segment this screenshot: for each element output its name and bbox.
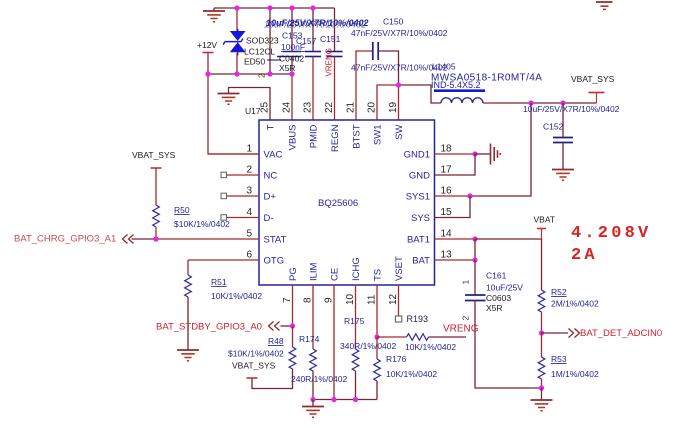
- wire bus drop to C157 (col 313): [312, 8, 314, 52]
- capacitor C152: [562, 103, 564, 137]
- pin 12 VSET stub + R193: [398, 285, 400, 316]
- wire diode bottom lead: [236, 53, 238, 74]
- IC U17 BQ25606 body: [259, 120, 435, 285]
- wire OTG down to R51: [187, 260, 189, 275]
- svg-text:2A: 2A: [571, 246, 598, 265]
- node dot GND1: [472, 151, 477, 156]
- node dot BAT1: [472, 236, 477, 241]
- svg-text:1M/1%/0402: 1M/1%/0402: [551, 369, 599, 379]
- svg-text:+12V: +12V: [197, 40, 217, 50]
- svg-text:15: 15: [441, 207, 453, 218]
- wire to rotated ground: [475, 153, 491, 155]
- svg-text:$10K/1%/0402: $10K/1%/0402: [228, 349, 284, 359]
- svg-text:ICHG: ICHG: [351, 257, 362, 281]
- svg-text:R48: R48: [268, 336, 284, 346]
- svg-text:SYS1: SYS1: [406, 192, 430, 203]
- svg-text:10K/1%/0402: 10K/1%/0402: [211, 291, 262, 301]
- svg-text:23: 23: [303, 101, 314, 113]
- svg-text:C0603: C0603: [486, 293, 511, 303]
- wire bus corner to C151 (col 334.5): [334, 8, 336, 52]
- node dots SW net: [528, 100, 533, 105]
- pin 9 CE column: [333, 285, 335, 400]
- svg-text:VBAT_SYS: VBAT_SYS: [571, 74, 615, 84]
- resistor 10K horizontal (VRENG): [407, 334, 429, 341]
- wire pin25 T to ground L: [229, 88, 271, 121]
- svg-text:TS: TS: [373, 269, 384, 281]
- wire pin19 SW up: [398, 85, 400, 120]
- svg-text:18: 18: [441, 144, 453, 155]
- pin numbers top (rotated): [260, 101, 400, 113]
- svg-text:NC: NC: [264, 171, 278, 182]
- svg-text:C0402: C0402: [279, 54, 304, 64]
- svg-text:1: 1: [461, 280, 471, 285]
- svg-text:D+: D+: [264, 192, 277, 203]
- svg-text:10K/1%/0402: 10K/1%/0402: [405, 342, 456, 352]
- VBAT_SYS power symbol (R48 bottom): [247, 377, 258, 379]
- pin numbers left: [246, 144, 252, 261]
- svg-text:R175: R175: [344, 316, 365, 326]
- pin 5 STAT stub: [156, 238, 259, 240]
- resistor R175: [352, 349, 359, 371]
- IND underline (thick blue): [434, 89, 485, 92]
- svg-text:VBAT_SYS: VBAT_SYS: [132, 150, 176, 160]
- ground (top-left, on bus): [213, 8, 215, 11]
- pin 4 D- stub: [227, 217, 260, 219]
- wire BAT net to VBAT: [475, 238, 542, 240]
- wire +12V down to pin1 VAC: [208, 74, 259, 154]
- pin names right: [404, 150, 431, 267]
- pin numbers right: [441, 144, 453, 261]
- pin names left: [264, 150, 287, 267]
- svg-text:8: 8: [303, 297, 314, 303]
- svg-text:10: 10: [345, 293, 356, 305]
- pin names top (rotated): [266, 124, 406, 152]
- svg-text:100nF: 100nF: [281, 42, 305, 52]
- wire SYS1 to pin 15 SYS: [435, 196, 471, 218]
- capacitor C153: [277, 52, 301, 57]
- wire bus drop to C153 (col 292): [291, 8, 293, 52]
- svg-text:R50: R50: [174, 205, 190, 215]
- svg-text:2: 2: [246, 165, 252, 176]
- pin 14 BAT1 stub: [435, 238, 476, 240]
- svg-text:12: 12: [388, 293, 399, 305]
- svg-text:3: 3: [246, 186, 252, 197]
- svg-text:GND1: GND1: [404, 150, 430, 161]
- svg-text:340R/1%/0402: 340R/1%/0402: [340, 341, 397, 351]
- pin 8 ILIM column: [312, 285, 314, 349]
- svg-text:BAT_DET_ADCIN0: BAT_DET_ADCIN0: [580, 328, 662, 339]
- ground (pin25 thermal): [218, 94, 240, 105]
- top ground bus wire (net VBUS top): [214, 7, 335, 9]
- pin 16 SYS1 stub: [435, 195, 471, 197]
- ground (bottom bus): [312, 400, 314, 407]
- svg-text:STAT: STAT: [264, 235, 287, 246]
- pin 13 BAT stub: [435, 259, 476, 261]
- wire diode top lead: [236, 8, 238, 32]
- svg-text:22: 22: [324, 101, 335, 113]
- ground (pin18, rotated): [491, 144, 501, 165]
- capacitor C151: [327, 52, 343, 57]
- svg-text:11: 11: [367, 294, 378, 305]
- ground (R51): [177, 350, 199, 361]
- node dot TS: [374, 334, 379, 339]
- TVS diode D (bidirectional, SOD-323): [223, 29, 245, 56]
- node dot ground net: [539, 385, 544, 390]
- svg-text:GND: GND: [409, 171, 430, 182]
- svg-text:VSET: VSET: [394, 256, 405, 281]
- svg-text:ED50: ED50: [244, 57, 266, 67]
- svg-text:BQ25606: BQ25606: [318, 198, 358, 209]
- svg-text:CE: CE: [330, 268, 341, 281]
- svg-text:16: 16: [441, 186, 453, 197]
- ground (battery divider): [541, 388, 543, 400]
- wire C150 right to SW node: [378, 51, 398, 85]
- svg-text:10uF/25V/X7R/10%/0402: 10uF/25V/X7R/10%/0402: [523, 104, 620, 114]
- svg-text:2: 2: [461, 316, 471, 321]
- svg-text:240R/1%/0402: 240R/1%/0402: [291, 374, 348, 384]
- inductor L1405: [441, 98, 483, 103]
- resistor R52: [538, 290, 545, 312]
- svg-text:VBUS: VBUS: [288, 125, 299, 151]
- svg-text:BAT1: BAT1: [407, 235, 430, 246]
- wire C153 bottom to pin24: [291, 57, 293, 75]
- svg-text:4.208V: 4.208V: [571, 224, 651, 243]
- svg-text:SW1: SW1: [373, 125, 384, 146]
- wire VBAT_SYS down to SYS pins: [470, 103, 531, 196]
- svg-text:C152: C152: [543, 122, 564, 132]
- pin numbers bottom (rotated): [282, 293, 399, 305]
- svg-text:10uF/25V: 10uF/25V: [486, 283, 523, 293]
- VBAT power symbol: [541, 229, 543, 240]
- svg-text:9: 9: [324, 297, 335, 303]
- svg-text:17: 17: [441, 165, 453, 176]
- stray leader line near ED50: [267, 59, 281, 61]
- svg-text:L1405: L1405: [432, 62, 456, 72]
- resistor R174: [310, 349, 317, 371]
- svg-text:24: 24: [282, 101, 293, 113]
- resistor R48: [292, 326, 294, 347]
- svg-text:47nF/25V/X7R/10%/0402: 47nF/25V/X7R/10%/0402: [351, 28, 448, 38]
- svg-text:OTG: OTG: [264, 256, 285, 267]
- resistor R51: [185, 275, 192, 297]
- svg-text:VBAT: VBAT: [534, 215, 556, 225]
- node dot SYS1: [467, 193, 472, 198]
- svg-text:SW: SW: [394, 124, 405, 139]
- svg-text:C161: C161: [486, 271, 507, 281]
- wire BAT1 to pin 13 BAT: [474, 239, 476, 260]
- wire R51 to ground: [187, 297, 189, 350]
- svg-text:5: 5: [246, 229, 252, 240]
- wire STDBY to pin7 column: [281, 325, 293, 327]
- svg-text:BAT_STDBY_GPIO3_A0: BAT_STDBY_GPIO3_A0: [156, 322, 262, 333]
- wire STAT net: [132, 238, 157, 240]
- wire pin20 SW1 up: [377, 85, 399, 120]
- svg-text:VRENG: VRENG: [325, 48, 334, 76]
- svg-text:1: 1: [246, 144, 252, 155]
- wire VBAT_SYS node: [494, 102, 597, 104]
- pin 11 TS column: [376, 285, 378, 337]
- svg-text:19: 19: [388, 101, 399, 113]
- svg-text:SYS: SYS: [411, 213, 430, 224]
- svg-text:BAT_CHRG_GPIO3_A1: BAT_CHRG_GPIO3_A1: [14, 234, 116, 245]
- pin 18 GND1 stub: [435, 153, 476, 155]
- svg-text:VRENG: VRENG: [443, 324, 479, 335]
- wire VBAT column down: [541, 239, 543, 290]
- node dot BAT: [472, 257, 477, 262]
- wire C151 bottom to pin22 REGN: [334, 57, 336, 121]
- svg-text:LC12CL: LC12CL: [244, 47, 275, 57]
- svg-text:R52: R52: [551, 287, 567, 297]
- svg-text:U17: U17: [245, 106, 261, 116]
- svg-text:R53: R53: [551, 354, 567, 364]
- svg-text:R51: R51: [211, 277, 227, 287]
- svg-text:21: 21: [346, 101, 357, 113]
- svg-text:BAT: BAT: [412, 256, 430, 267]
- svg-text:D-: D-: [264, 213, 274, 224]
- svg-text:4: 4: [246, 207, 252, 218]
- svg-text:25: 25: [260, 101, 271, 113]
- capacitor C157: [305, 52, 321, 57]
- svg-text:BTST: BTST: [352, 124, 363, 148]
- svg-text:SOD323: SOD323: [246, 36, 279, 46]
- svg-text:X5R: X5R: [279, 63, 296, 73]
- svg-text:$10K/1%/0402: $10K/1%/0402: [174, 219, 230, 229]
- wire C157 bottom to pin23: [312, 57, 314, 121]
- pin 3 D+ stub: [227, 195, 260, 197]
- wire GND1 to pin 17: [435, 154, 476, 175]
- resistor R50: [153, 205, 160, 227]
- svg-text:ILIM: ILIM: [309, 262, 320, 281]
- svg-text:C150: C150: [383, 17, 404, 27]
- wire +12V horizontal at y=74: [208, 73, 292, 75]
- node dot BAT_DET: [539, 330, 544, 335]
- bottom ground bus: [313, 399, 377, 401]
- svg-text:13: 13: [441, 250, 453, 261]
- ground (C152): [552, 170, 574, 181]
- wire C161 bottom to ground net: [475, 301, 542, 389]
- svg-text:14: 14: [441, 229, 453, 240]
- svg-text:PMID: PMID: [309, 124, 320, 148]
- ground (top right, clipped): [596, 2, 613, 9]
- wire pin21 BTST up to C150: [356, 51, 372, 120]
- pin 1 VAC stub: [208, 153, 259, 155]
- no-connect square pin4: [221, 215, 227, 221]
- svg-text:2: 2: [257, 73, 267, 78]
- wire inductor right stub: [483, 102, 494, 104]
- svg-text:R193: R193: [407, 314, 429, 324]
- svg-text:REGN: REGN: [330, 124, 341, 152]
- svg-text:X5R: X5R: [486, 303, 503, 313]
- node dot STAT: [153, 236, 158, 241]
- wire TS to R193 resistor (horizontal): [377, 336, 407, 338]
- node dots top: [205, 5, 315, 76]
- resistor R176: [376, 337, 378, 359]
- no-connect square pin2: [221, 172, 227, 178]
- resistor R53: [541, 333, 543, 357]
- chevron BAT_CHRG_GPIO3_A1: [123, 235, 134, 244]
- pin 2 NC stub: [227, 174, 260, 176]
- svg-text:VAC: VAC: [264, 150, 283, 161]
- node dot SW: [396, 82, 401, 87]
- capacitor C161: [474, 260, 476, 295]
- svg-text:2M/1%/0402: 2M/1%/0402: [551, 299, 599, 309]
- svg-text:PG: PG: [288, 267, 299, 281]
- pin names bottom (rotated): [288, 256, 405, 281]
- svg-text:R176: R176: [386, 354, 407, 364]
- chevron BAT_STDBY_GPIO3_A0: [269, 322, 280, 331]
- pin 10 ICHG column: [355, 285, 357, 349]
- svg-text:T: T: [266, 124, 277, 130]
- pin 7 PG column: [292, 285, 294, 326]
- svg-text:R174: R174: [299, 334, 320, 344]
- node dot PG: [290, 323, 295, 328]
- wire bus drop to +12V wire (col 270): [269, 8, 271, 74]
- wire SW node to inductor: [399, 85, 442, 103]
- no-connect square pin3: [221, 193, 227, 199]
- wire R48 to VBAT_SYS power: [252, 369, 293, 389]
- VBAT_SYS power symbol right: [596, 93, 598, 104]
- capacitor C150: [373, 42, 378, 60]
- svg-text:20: 20: [367, 101, 378, 113]
- svg-text:VBAT_SYS: VBAT_SYS: [232, 361, 276, 371]
- svg-text:C151: C151: [320, 34, 341, 44]
- pin 6 OTG stub: [188, 259, 259, 261]
- VBAT_SYS power symbol (R50 top): [151, 167, 162, 169]
- node dots bottom bus: [310, 397, 315, 402]
- chevron BAT_DET_ADCIN0: [569, 329, 580, 338]
- svg-text:7: 7: [282, 297, 293, 303]
- wire BAT_DET to chevron: [542, 332, 569, 334]
- svg-text:10K/1%/0402: 10K/1%/0402: [386, 369, 437, 379]
- svg-text:6: 6: [246, 250, 252, 261]
- +12V power symbol: [203, 52, 214, 54]
- svg-text:IND-5.4X5.2: IND-5.4X5.2: [431, 80, 481, 90]
